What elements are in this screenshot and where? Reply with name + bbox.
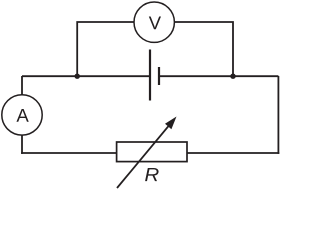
wire: resistor to bottom right corner [187,152,279,154]
variable resistor arrow head [165,117,177,130]
wire: bottom left horizontal to resistor [21,152,117,154]
wire: voltmeter to right junction [174,22,233,76]
battery B1 long plate (positive) [149,50,151,101]
wire: ammeter down to bottom rail [21,135,23,154]
voltmeter label V [149,16,161,29]
variable resistor arrow shaft [117,124,170,188]
node: right junction [230,74,235,79]
wire: left junction up and right to voltmeter [77,22,134,76]
wire: middle rail down to ammeter [21,76,23,95]
wire: right vertical rail [277,76,279,154]
label R (value) [145,168,159,181]
wire: middle horizontal right segment (battery short plate to right rail) [159,75,278,77]
resistor R body [117,142,187,162]
node: left junction [75,74,80,79]
voltmeter V circle [134,2,174,42]
ammeter label A [16,109,28,122]
ammeter A circle [2,95,42,135]
wire: middle horizontal left segment (left rail to battery long plate) [22,75,150,77]
battery B1 short plate (negative) [158,67,160,85]
